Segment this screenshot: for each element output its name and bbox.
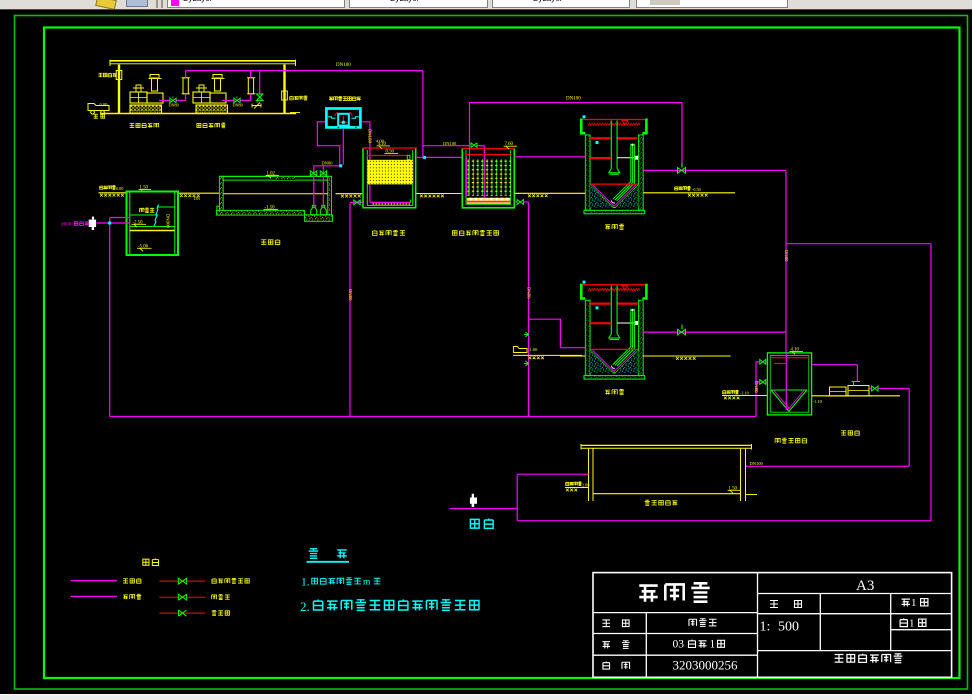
pipe valve2 to riser2 xyxy=(241,99,251,101)
label distribution box 排水调节阀门井 xyxy=(329,97,333,101)
blower house floor line xyxy=(100,113,296,115)
ground line right of wet well with hatch xyxy=(178,192,219,194)
label fan right of column xyxy=(290,96,294,100)
label blower-house left (vertical equipment note) xyxy=(99,73,103,77)
distribution box red center cross xyxy=(342,116,344,124)
spare air drop with valve V3 xyxy=(259,71,261,94)
ground line right of clarifier C1 xyxy=(643,192,735,194)
svg-text:0.00: 0.00 xyxy=(100,102,109,107)
blower house left column xyxy=(118,65,120,114)
bypass pipe from riser to right edge xyxy=(786,243,931,245)
pump riser 1 with valve xyxy=(313,166,315,208)
svg-text:DN100: DN100 xyxy=(566,97,581,102)
clarifier C2 sludge airlift pipe xyxy=(613,309,631,365)
clarifier C2 hopper slopes and cyan sludge fill xyxy=(590,350,638,373)
clarifier C2 top red water line and weir xyxy=(582,284,645,286)
hydrolysis tank media block (yellow with black dots) xyxy=(367,160,413,185)
title block vertical main divider xyxy=(757,573,759,678)
air header pipe DN100 xyxy=(186,70,423,72)
hydrolysis tank internal feed header xyxy=(370,201,411,203)
sludge main riser to thickener xyxy=(785,170,787,353)
svg-text:1.: 1. xyxy=(301,577,310,589)
ground left of thickener xyxy=(722,395,767,397)
legend label sludge pipe xyxy=(123,595,128,599)
valve V1 blower1 xyxy=(170,98,176,102)
title 高程图 (Elevation Diagram) xyxy=(639,586,657,602)
disinfection tank top beam xyxy=(581,444,752,446)
gate truck symbol xyxy=(88,104,109,111)
pump discharge drop and run to disinfection tank xyxy=(908,389,910,467)
clarifier C1 scum baffle red lines xyxy=(590,137,610,139)
ground line left of wet well with hatch xyxy=(99,192,127,194)
svg-text:500: 500 xyxy=(778,620,799,635)
ground hatch left of hydrolysis tank xyxy=(336,193,364,195)
distribution box red flow arcs xyxy=(335,112,338,116)
disinfection outlet pipe xyxy=(517,473,588,475)
clarifier C2 base slab xyxy=(584,376,645,380)
roots blower B1 motor xyxy=(130,92,147,103)
disinfection right ground stub xyxy=(746,494,758,496)
svg-text:03: 03 xyxy=(673,639,685,651)
hydrolysis drain valve and pipe to loop xyxy=(354,201,363,203)
oxidation tank top red water lines xyxy=(462,148,514,150)
pipe pump header riser to box xyxy=(342,129,344,165)
outfall riser xyxy=(516,474,518,521)
oxidation air downcomer 2 xyxy=(469,146,471,196)
water level line through regulating tank xyxy=(224,193,328,195)
branch feed pipe to clarifier2 xyxy=(529,319,586,348)
roots blower B2 motor xyxy=(193,92,210,103)
air riser standpipe 2 xyxy=(248,78,253,94)
svg-text:1: 1 xyxy=(911,597,917,609)
oxidation drain valve and riser down xyxy=(514,201,517,203)
svg-text:DN100: DN100 xyxy=(443,141,457,146)
hydrolysis tank top red water lines xyxy=(363,147,418,149)
water pipe hydrolysis to oxidation tank xyxy=(416,156,462,158)
toolbar (clipped AutoCAD properties bar) xyxy=(0,0,972,10)
disinfection tank right wall xyxy=(740,448,742,501)
clarifier C2 hopper red line xyxy=(590,348,638,350)
svg-text:1: 1 xyxy=(760,620,767,635)
sludge pump unit (yellow) xyxy=(830,387,847,396)
clarifier C1 center feed well xyxy=(610,120,612,168)
clarifier C1 grips xyxy=(583,115,586,118)
svg-text:A3: A3 xyxy=(856,578,874,594)
title block left row lines xyxy=(593,612,758,614)
svg-text:DN80: DN80 xyxy=(784,250,789,262)
pipe drain down to bottom loop (left riser) xyxy=(109,218,111,417)
legend sewage line sample xyxy=(71,580,117,582)
svg-text:DN80: DN80 xyxy=(322,160,334,165)
label disinfection tank 接触消毒池 xyxy=(645,500,650,505)
ground line right of clarifier C2 xyxy=(643,355,731,357)
clarifier C1 sludge airlift pipe xyxy=(613,144,631,200)
disinfection tank floor xyxy=(593,493,741,495)
oxidation tank walls xyxy=(462,148,514,207)
pipe blower1 discharge xyxy=(159,99,170,101)
inlet arrow (white) xyxy=(92,217,94,220)
label 第1页 xyxy=(900,618,907,626)
svg-text:DN80: DN80 xyxy=(233,103,243,108)
clarifier C2 outlet pipe with valve xyxy=(643,331,786,333)
label screen text xyxy=(140,208,144,212)
pipe branch upper into wet well xyxy=(110,217,130,219)
title block right row lines xyxy=(758,593,952,595)
svg-text:3203000256: 3203000256 xyxy=(673,657,739,672)
svg-text:DN: DN xyxy=(194,196,200,201)
pipe distribution box right outlet to hydrolysis tank xyxy=(362,122,370,203)
label outlet 出水 xyxy=(470,519,479,528)
submersible pump P1 in regulating tank xyxy=(311,205,317,214)
roots blower B2 pump body and outlet stack xyxy=(210,93,226,103)
wet well tank structure xyxy=(127,192,179,256)
regulating tank walls xyxy=(219,175,332,177)
oxidation tank media curtains (vertical lines with dashes) xyxy=(469,159,511,196)
value drafter name xyxy=(689,619,697,626)
label 班级 (class) xyxy=(602,642,610,649)
label regulating tank 调节池 xyxy=(261,240,266,245)
label 广东工业大学 (university) xyxy=(835,654,844,662)
roots blower B1 pump body and outlet stack xyxy=(147,93,163,103)
legend label butterfly valve xyxy=(212,578,216,583)
blower house right column xyxy=(283,65,285,114)
bottom drain loop pipe xyxy=(110,416,756,418)
thickener red water line xyxy=(771,357,809,359)
thickener return riser to bottom loop xyxy=(755,362,757,417)
legend label check valve xyxy=(212,595,217,599)
pump discharge valve and pipe xyxy=(869,388,871,390)
svg-text:2.: 2. xyxy=(300,599,310,614)
flow arrows on drain riser xyxy=(524,332,529,337)
ground hatch between hydrolysis and oxidation tanks xyxy=(416,193,462,195)
grip on water pipe xyxy=(423,156,426,159)
roots blower B1 base xyxy=(130,105,162,114)
distribution box side weir lines xyxy=(328,117,335,119)
svg-text:m: m xyxy=(363,578,371,588)
legend sludge line sample xyxy=(71,595,117,597)
label gate 大门 xyxy=(94,114,98,118)
svg-text:DN150: DN150 xyxy=(368,129,373,144)
svg-text:DN80: DN80 xyxy=(169,103,179,108)
roots blower B2 base xyxy=(196,105,228,114)
thickener center feed pipe xyxy=(785,353,787,410)
legend label expansion joint xyxy=(212,611,217,616)
outfall pipe to outlet arrow xyxy=(449,508,517,510)
label 共1页 xyxy=(902,599,910,606)
svg-text:1.00: 1.00 xyxy=(530,347,539,352)
hydrolysis tank walls xyxy=(363,148,416,207)
title block outer frame xyxy=(593,573,952,678)
svg-text:DN100: DN100 xyxy=(336,63,351,68)
pipe valve1 to riser1 xyxy=(177,99,186,101)
aeration drop pipe inside oxidation tank xyxy=(483,146,485,202)
svg-text:1: 1 xyxy=(710,639,716,651)
clarifier C2 scum baffle red lines xyxy=(590,303,610,305)
disinfection tank left wall xyxy=(588,448,590,501)
notes title 说明 xyxy=(309,549,319,559)
ground right of thickener xyxy=(812,395,900,397)
svg-text:-1.10: -1.10 xyxy=(813,399,823,404)
clarifier C2 grips xyxy=(583,281,586,284)
label clarifier C1 沉淀池 xyxy=(605,225,610,230)
pump riser 2 with valve xyxy=(322,166,324,208)
legend valve row 1 (butterfly valve) xyxy=(159,580,205,582)
clarifier C1 main walls xyxy=(585,135,590,210)
regulating tank bottom slab xyxy=(217,210,305,215)
hydrolysis outlet weir box xyxy=(407,155,410,159)
distribution box center well xyxy=(338,114,349,126)
pump suction pipe from thickener xyxy=(812,364,858,366)
legend valve row 3 (expansion joint) xyxy=(159,612,205,614)
oxidation aeration header and diffusers xyxy=(467,198,510,204)
pipe distribution box left loop xyxy=(317,122,339,165)
svg-text:d600: d600 xyxy=(61,222,72,228)
valve V2 blower2 xyxy=(234,98,240,102)
clarifier C2 collar walls xyxy=(581,284,585,299)
svg-text:DN80: DN80 xyxy=(526,287,531,299)
clarifier C2 center feed well xyxy=(610,286,612,334)
svg-text:0.00: 0.00 xyxy=(116,186,123,191)
oxidation inlet downcomer pipe xyxy=(466,157,468,195)
legend label sewage pipe xyxy=(123,579,128,583)
legend valve row 2 (check valve) xyxy=(159,596,205,598)
status bar (bottom) xyxy=(0,694,972,700)
clarifier C1 collar walls xyxy=(581,119,585,134)
air drop pipe from header to branch xyxy=(422,71,424,158)
label roots blower 1 xyxy=(130,123,135,127)
grip on pump header xyxy=(339,164,342,167)
svg-text:1: 1 xyxy=(909,618,915,630)
air branch to oxidation tank with valve V4 xyxy=(423,145,469,147)
distribution box drain holes xyxy=(338,127,340,129)
label clarifier C2 沉淀池 xyxy=(605,390,610,395)
grip on inlet pipe xyxy=(108,222,111,225)
pipe blower2 discharge xyxy=(222,99,234,101)
thickener supernatant valves xyxy=(766,361,767,363)
oxidation tank outlet pipe to clarifier1 xyxy=(514,156,585,158)
label 制图 (drawn by) xyxy=(602,620,610,627)
label 比例 (scale) xyxy=(770,601,778,608)
svg-text:-0.50: -0.50 xyxy=(692,187,701,192)
clarifier C1 hopper slopes and cyan sludge fill xyxy=(590,185,638,208)
ground marker with 1.00 next to clarifier2 feed xyxy=(514,347,528,353)
bottom return pipe to outfall xyxy=(517,520,931,522)
label thickener 污泥浓缩池 xyxy=(775,438,780,442)
thickener hopper xyxy=(771,389,807,391)
label 学号 (student no) xyxy=(603,662,610,670)
svg-text:DN100: DN100 xyxy=(750,461,764,466)
blower house roof beam xyxy=(110,60,296,62)
svg-text:DN300: DN300 xyxy=(166,214,171,229)
submersible pump P2 in regulating tank xyxy=(320,205,326,214)
label roots blower 2 xyxy=(197,123,201,127)
right edge drop pipe xyxy=(930,244,932,521)
clarifier C1 outlet pipe with airlift valve xyxy=(643,169,786,171)
svg-text:DN80: DN80 xyxy=(348,289,353,301)
clarifier C1 hopper red line xyxy=(590,183,638,185)
outlet arrow (white) xyxy=(472,494,474,498)
ground line left of clarifier C1 xyxy=(560,192,585,194)
ground left of disinfection tank xyxy=(566,482,569,486)
clarifier C2 effluent pipe (white) inside xyxy=(617,322,634,324)
ground hatch right of oxidation tank xyxy=(514,192,560,194)
air riser standpipe 1 xyxy=(183,78,188,94)
label hydrolysis tank 水解酸化池 xyxy=(372,230,377,235)
clarifier C1 base slab xyxy=(584,210,645,214)
clarifier C2 main walls xyxy=(585,300,590,375)
expansion joint symbol below spare valve xyxy=(252,103,261,109)
svg-text:2.00: 2.00 xyxy=(582,482,589,487)
distribution box (cyan) outer structure xyxy=(326,109,360,128)
wet well internal platforms xyxy=(158,206,175,208)
pipe inlet to wet well xyxy=(97,222,130,224)
bar screen (cyan diagonal) xyxy=(154,205,159,227)
clarifier C2 inlet red pipe inside xyxy=(590,322,611,324)
svg-text:DN80: DN80 xyxy=(754,381,759,393)
label oxidation tank 生物接触氧化池 xyxy=(452,231,457,236)
ground line left of clarifier C2 xyxy=(560,355,586,357)
svg-text:-1.10: -1.10 xyxy=(740,391,749,396)
notes title underline xyxy=(307,561,350,563)
label sludge pump 污泥泵 xyxy=(841,431,846,435)
pump discharge header xyxy=(314,165,341,167)
regulating tank pump sump xyxy=(305,215,333,222)
air line DN100 to clarifier airlifts xyxy=(470,103,683,166)
thickener tank walls xyxy=(767,353,811,415)
svg-text::: : xyxy=(767,620,771,635)
legend title 图例 xyxy=(143,559,149,565)
clarifier C1 effluent pipe (white) inside xyxy=(617,157,634,159)
clarifier C1 inlet red pipe inside xyxy=(590,157,611,159)
clarifier C1 top red water line and weir xyxy=(582,119,645,121)
